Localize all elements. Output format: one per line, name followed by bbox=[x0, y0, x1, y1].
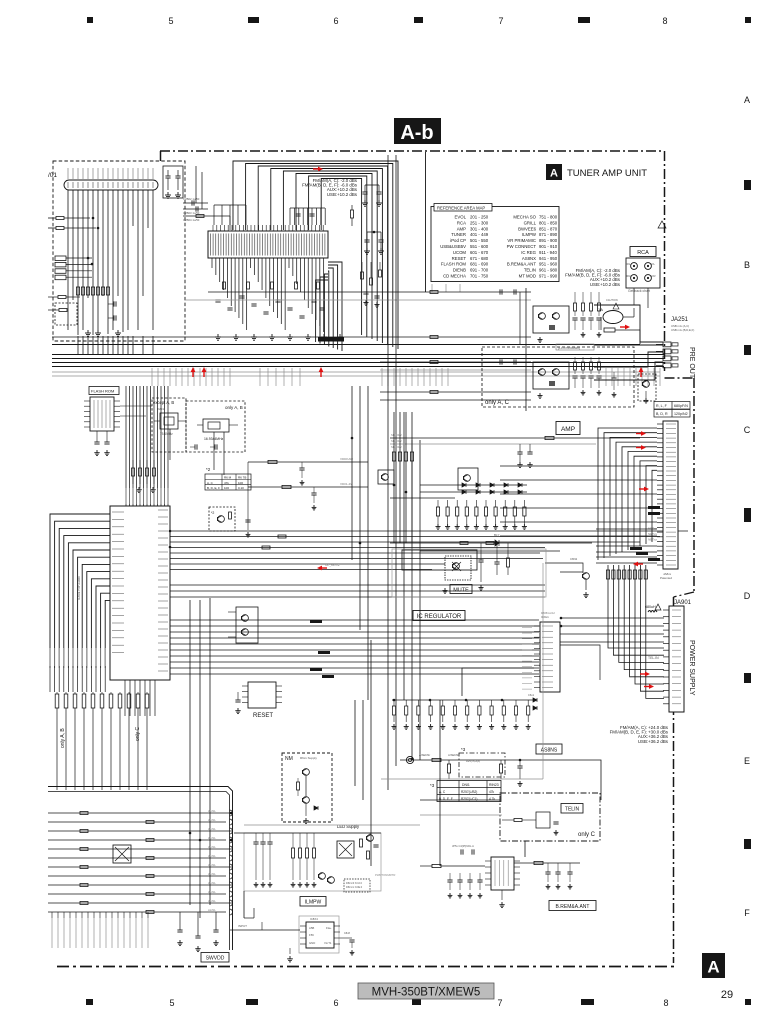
bus net labels right group bbox=[605, 368, 607, 386]
tuner amp unit border step bbox=[665, 377, 695, 379]
fuse FU251 1A bbox=[603, 311, 623, 324]
tuner IC bottom pins and wires bbox=[211, 258, 213, 268]
mute wire to transistor bbox=[545, 563, 583, 573]
ilmpw note dashed box bbox=[344, 879, 370, 892]
svg-text:*3: *3 bbox=[461, 747, 466, 752]
brem ic IC951 bbox=[491, 857, 514, 890]
ground symbols in connector box bbox=[85, 330, 91, 336]
svg-text:ILMPW: ILMPW bbox=[305, 900, 322, 906]
svg-text:680pF/N: 680pF/N bbox=[674, 404, 688, 408]
tuner amp unit border step 2 bbox=[674, 592, 695, 597]
ilmpw vertical gray feeds bbox=[243, 891, 245, 918]
as8ns wire bbox=[400, 759, 560, 761]
svg-text:R257(L/B2): R257(L/B2) bbox=[461, 790, 477, 794]
vcc caps above tuner IC area bbox=[213, 205, 215, 225]
junction dots various bbox=[351, 437, 354, 440]
ilmpw right resistors bbox=[360, 839, 363, 847]
svg-text:TUNER AMP UNIT: TUNER AMP UNIT bbox=[567, 168, 647, 179]
mute resistors on rail bbox=[460, 542, 468, 545]
amp flexible connector body bbox=[663, 421, 678, 569]
only C dash-dot box bbox=[500, 793, 600, 841]
capacitor C705 bbox=[114, 315, 116, 320]
svg-text:B, D, E, F: B, D, E, F bbox=[207, 486, 220, 490]
center vertical rails lower bbox=[354, 700, 356, 786]
sda scl wires to tuner bbox=[248, 461, 368, 463]
tuner amp unit border top bbox=[160, 150, 664, 152]
ilmpw ic bbox=[306, 922, 334, 948]
amp feed resistor bbox=[545, 436, 554, 439]
svg-text:B.REM&A.ANT: B.REM&A.ANT bbox=[507, 262, 537, 267]
svg-text:7: 7 bbox=[497, 998, 502, 1008]
svg-text:R257(L/C1): R257(L/C1) bbox=[461, 797, 477, 801]
svg-text:ILMPW: ILMPW bbox=[522, 232, 537, 237]
coupling caps C2xx to tuner bbox=[183, 202, 208, 204]
capacitor C704 bbox=[114, 301, 116, 306]
svg-text:*3: *3 bbox=[430, 783, 435, 788]
reset IC IC651 bbox=[248, 682, 276, 708]
svg-text:MT MOD: MT MOD bbox=[519, 274, 536, 279]
svg-text:100: 100 bbox=[238, 481, 243, 485]
svg-text:941 - 950: 941 - 950 bbox=[539, 256, 558, 261]
svg-text:551 - 600: 551 - 600 bbox=[470, 244, 489, 249]
tuner amp unit border bottom bbox=[57, 966, 674, 968]
page grid tick marks bottom bbox=[86, 999, 93, 1005]
svg-text:701 - 750: 701 - 750 bbox=[470, 274, 489, 279]
ILMPW label box bbox=[300, 897, 326, 907]
preout input wires bbox=[208, 291, 531, 293]
svg-text:AS8NX: AS8NX bbox=[522, 256, 536, 261]
svg-text:REFERENCE AREA MAP: REFERENCE AREA MAP bbox=[437, 206, 485, 211]
svg-text:1A: 1A bbox=[598, 307, 603, 312]
svg-text:IC REG: IC REG bbox=[521, 250, 536, 255]
ucom bottom pins bbox=[124, 680, 126, 716]
svg-text:671 - 680: 671 - 680 bbox=[470, 256, 489, 261]
cap C4xx near amp bbox=[378, 470, 394, 484]
mute transistor block bbox=[445, 556, 471, 580]
red arrow on nest top bbox=[313, 167, 323, 172]
svg-text:RIN23: RIN23 bbox=[489, 783, 499, 787]
AS8NS label box bbox=[536, 744, 562, 754]
red arrows amp connector bbox=[636, 431, 646, 436]
svg-text:JA251: JA251 bbox=[671, 317, 689, 323]
regulator to ja901 wires bbox=[560, 625, 664, 627]
svg-text:MVH-350BT/XMEW5: MVH-350BT/XMEW5 bbox=[372, 987, 481, 999]
svg-text:only C: only C bbox=[135, 726, 141, 741]
svg-text:AL/NL: AL/NL bbox=[208, 899, 216, 903]
coupling cap row 3 bbox=[183, 215, 230, 217]
NM dashed box bbox=[282, 753, 332, 822]
bottom mid caps bbox=[177, 930, 182, 932]
svg-text:75.6MHz: 75.6MHz bbox=[160, 432, 173, 436]
svg-text:961 - 980: 961 - 980 bbox=[539, 268, 558, 273]
svg-text:A: A bbox=[550, 168, 558, 180]
as8ns gray return wire bbox=[381, 778, 543, 780]
wires preout to connector JA251 bbox=[594, 305, 663, 342]
amp long feed wires bbox=[390, 437, 640, 439]
resistor on signal line bbox=[262, 546, 270, 549]
main horizontal bus wires bbox=[52, 354, 664, 356]
ucom internal pin labels right bbox=[158, 509, 168, 511]
red arrow mute line bbox=[633, 562, 643, 567]
MUTE label bbox=[450, 585, 472, 594]
svg-text:AL/NL: AL/NL bbox=[208, 863, 216, 867]
amp connector stub wires right bbox=[596, 528, 657, 530]
svg-text:OP_MUTE: OP_MUTE bbox=[325, 563, 340, 567]
svg-text:C2B04 1u/50: C2B04 1u/50 bbox=[183, 218, 200, 222]
ucom mid signal wires bbox=[170, 584, 545, 586]
svg-text:C8N2: C8N2 bbox=[570, 557, 578, 561]
svg-text:851 - 870: 851 - 870 bbox=[539, 226, 558, 231]
capacitor C251 C252 top right of box bbox=[163, 166, 183, 198]
svg-text:D: D bbox=[744, 591, 751, 601]
svg-text:29: 29 bbox=[721, 989, 733, 1001]
RCA jack block bbox=[626, 258, 660, 288]
amp connector direct feeds bbox=[500, 465, 657, 467]
amp input resistors bbox=[392, 452, 395, 461]
asterisk3 dashed box bbox=[459, 753, 505, 777]
svg-text:JP5x C4(35)VDL.A: JP5x C4(35)VDL.A bbox=[452, 844, 474, 848]
as8ns resistor bbox=[432, 758, 441, 761]
amp connector nested feed wires bbox=[598, 428, 657, 560]
svg-text:USB:+10.2 dBs: USB:+10.2 dBs bbox=[590, 282, 621, 287]
wire nest from tuner IC to right bbox=[233, 161, 398, 349]
capacitor pair C6xx with grounds bbox=[364, 185, 366, 192]
svg-text:251 - 300: 251 - 300 bbox=[470, 220, 489, 225]
component row lower left bbox=[49, 668, 51, 692]
svg-text:DIM x/0 N 10.0: DIM x/0 N 10.0 bbox=[346, 882, 363, 885]
svg-text:A/SENSr: A/SENSr bbox=[419, 753, 430, 757]
svg-text:AS8NS: AS8NS bbox=[541, 748, 558, 754]
bus net labels left group bbox=[151, 368, 153, 386]
tuner amp unit border top-left stub bbox=[160, 151, 162, 163]
svg-text:6: 6 bbox=[333, 16, 338, 26]
svg-text:CAUTION: CAUTION bbox=[606, 298, 618, 302]
regulator rc bank bbox=[393, 700, 395, 706]
svg-text:47k: 47k bbox=[489, 790, 495, 794]
svg-text:NM: NM bbox=[285, 756, 293, 762]
svg-text:E: E bbox=[744, 756, 750, 766]
telin circuit parts bbox=[536, 812, 550, 828]
mute white sub-board box bbox=[402, 550, 477, 570]
microcontroller IC601 body bbox=[110, 506, 170, 680]
tuner amp unit border right lower bbox=[673, 597, 675, 963]
only A C dashed box bbox=[482, 347, 634, 407]
triangle warning near preout bbox=[658, 221, 666, 228]
svg-text:USB&USB5V: USB&USB5V bbox=[440, 244, 466, 249]
svg-text:F: F bbox=[744, 908, 750, 918]
ilmpw input caps bbox=[255, 833, 257, 842]
antenna filter parts bbox=[351, 210, 354, 218]
resistor row on connector wires bbox=[76, 287, 79, 295]
vertical bundle amp to ja901 bbox=[608, 565, 664, 648]
bottom row resistors bbox=[80, 812, 88, 815]
warning triangle ja901 bbox=[655, 604, 661, 610]
svg-text:RESET: RESET bbox=[452, 256, 467, 261]
amp resistor bank bbox=[436, 507, 439, 516]
svg-text:FLASH ROM: FLASH ROM bbox=[441, 262, 466, 267]
svg-text:UCOM: UCOM bbox=[453, 250, 467, 255]
preout amp block lower bbox=[533, 362, 569, 389]
bottom bus rows bbox=[48, 812, 232, 814]
svg-text:PW CONNECT: PW CONNECT bbox=[507, 244, 537, 249]
svg-text:SWVDD: SWVDD bbox=[206, 956, 225, 962]
svg-text:501 - 550: 501 - 550 bbox=[470, 238, 489, 243]
ilmpw ic right cap bbox=[340, 937, 352, 939]
svg-text:8: 8 bbox=[663, 998, 668, 1008]
svg-text:IC9x1: IC9x1 bbox=[541, 615, 549, 619]
ucom left pin wires going down-left bbox=[50, 514, 110, 668]
long vertical wire at table left bbox=[425, 152, 427, 292]
svg-text:JA901: JA901 bbox=[674, 600, 692, 606]
svg-text:IC8X4: IC8X4 bbox=[310, 917, 318, 921]
ilmpw gray section outline bbox=[244, 833, 381, 891]
amp connector pin stubs bbox=[657, 423, 663, 425]
regulator output diodes bbox=[533, 698, 537, 702]
amp mid caps bbox=[517, 452, 522, 454]
svg-text:only C: only C bbox=[578, 832, 596, 838]
resistor array R3xx bbox=[132, 468, 135, 476]
components under tuner IC bbox=[215, 300, 220, 302]
preout resistors on input lines bbox=[430, 291, 438, 294]
svg-text:EVOL: EVOL bbox=[455, 215, 467, 220]
label stubs under table bbox=[431, 284, 433, 292]
svg-text:F56: F56 bbox=[309, 933, 314, 937]
svg-text:VR PRIMAMIC: VR PRIMAMIC bbox=[507, 238, 536, 243]
svg-text:891 - 900: 891 - 900 bbox=[539, 238, 558, 243]
svg-text:FL: FL bbox=[652, 262, 656, 266]
junction dots connector area bbox=[92, 217, 95, 220]
crystal X201 bbox=[160, 413, 178, 429]
svg-text:TUNER: TUNER bbox=[451, 232, 466, 237]
svg-text:only A, B: only A, B bbox=[225, 405, 243, 410]
JA901 connector body bbox=[669, 606, 684, 712]
svg-text:TEL.IN: TEL.IN bbox=[648, 656, 659, 660]
flash rom support caps bbox=[94, 442, 99, 444]
wire hop-over arcs on vertical bus bbox=[230, 810, 233, 816]
svg-text:C8x8: C8x8 bbox=[344, 932, 350, 935]
TELIN label box bbox=[561, 804, 583, 814]
discrete cluster right of tuner bbox=[361, 272, 364, 279]
ilmpw input wire bbox=[230, 929, 300, 931]
pullup resistor on scl bbox=[282, 485, 291, 488]
svg-text:Fla+: Fla+ bbox=[326, 926, 332, 930]
reset caps bbox=[235, 700, 240, 702]
model label MVH-350BT/XMEW5 bbox=[358, 983, 494, 999]
svg-text:PRE OUT: PRE OUT bbox=[688, 347, 695, 379]
SWVDD label box bbox=[201, 953, 229, 963]
ucom vdd filter parts bbox=[247, 462, 249, 530]
svg-text:TELIN: TELIN bbox=[565, 807, 580, 813]
svg-text:DIM x/c N.0E.0: DIM x/c N.0E.0 bbox=[346, 886, 363, 889]
vertical text labels bottom left bbox=[51, 918, 53, 948]
brem right parts bbox=[514, 862, 580, 864]
svg-text:871 - 890: 871 - 890 bbox=[539, 232, 558, 237]
resistor column on bundle bbox=[606, 570, 609, 579]
B.REM&A.ANT label box bbox=[549, 901, 596, 911]
resistor R704 bbox=[58, 296, 66, 299]
brem input resistor bbox=[432, 864, 441, 867]
svg-text:RL: RL bbox=[627, 262, 631, 266]
svg-text:Get back chart: Get back chart bbox=[628, 289, 650, 293]
mid vertical rails bbox=[189, 600, 191, 905]
svg-text:401 - 449: 401 - 449 bbox=[470, 232, 489, 237]
iPod connector section dashed box bbox=[53, 161, 185, 341]
as8ns cap bbox=[517, 766, 522, 768]
short stubs above tuner IC bbox=[289, 208, 291, 225]
crystal X202 16.9344MHz bbox=[203, 419, 229, 432]
main bus gray wires bbox=[52, 371, 660, 373]
svg-text:A, C: A, C bbox=[207, 481, 214, 485]
preout amp caps lower bbox=[500, 359, 502, 364]
caps on stub rail bbox=[295, 214, 300, 216]
preout connector JA251 pins bbox=[663, 342, 671, 347]
svg-text:680uH: 680uH bbox=[645, 605, 656, 609]
svg-text:A/SENSr: A/SENSr bbox=[448, 753, 459, 757]
svg-text:A5B: A5B bbox=[309, 926, 314, 930]
svg-text:USB mix (B,D,E,F): USB mix (B,D,E,F) bbox=[671, 328, 694, 332]
bypass caps cluster 1 bbox=[301, 462, 303, 468]
svg-text:*2: *2 bbox=[206, 467, 211, 472]
svg-text:BWVEE6: BWVEE6 bbox=[518, 226, 537, 231]
svg-text:5: 5 bbox=[168, 16, 173, 26]
regulator IC IC901 bbox=[540, 622, 560, 692]
regulator feedback wires bbox=[462, 668, 534, 696]
preout rc columns lower bbox=[574, 357, 576, 362]
svg-text:USB:+10.2 dBs: USB:+10.2 dBs bbox=[327, 192, 358, 197]
ground row under tuner IC bbox=[215, 334, 221, 340]
regulator rc rail bbox=[392, 699, 534, 701]
inductor L901 680uH bbox=[648, 611, 657, 613]
svg-text:4.7k: 4.7k bbox=[489, 797, 495, 801]
svg-text:A: A bbox=[707, 958, 719, 977]
page grid tick marks top bbox=[87, 17, 93, 23]
svg-text:only A, B: only A, B bbox=[60, 728, 66, 748]
svg-text:except A, B: except A, B bbox=[153, 400, 174, 405]
svg-text:AL/NL: AL/NL bbox=[208, 809, 216, 813]
svg-text:/01: /01 bbox=[48, 172, 57, 179]
svg-text:B, D, E, F: B, D, E, F bbox=[439, 797, 453, 801]
capacitor pair C6yy with grounds bbox=[366, 232, 368, 240]
red arrow bus 3 bbox=[319, 367, 324, 377]
IC REGULATOR label box bbox=[413, 611, 465, 621]
connector 701 pin labels bbox=[67, 168, 69, 179]
ilmpw feed rail bbox=[234, 832, 381, 834]
svg-text:911 - 940: 911 - 940 bbox=[539, 250, 557, 255]
amp connector pin labels bbox=[666, 423, 676, 425]
svg-text:601 - 670: 601 - 670 bbox=[470, 250, 489, 255]
svg-text:GND: GND bbox=[309, 941, 315, 945]
wires crystals to ucom bbox=[170, 429, 224, 475]
svg-text:AL/NL: AL/NL bbox=[208, 881, 216, 885]
svg-text:Patented: Patented bbox=[660, 576, 672, 580]
svg-text:INPUT: INPUT bbox=[238, 924, 247, 928]
svg-text:R, L, F: R, L, F bbox=[656, 404, 668, 408]
svg-text:RCA: RCA bbox=[637, 250, 649, 256]
svg-text:B.REM&A.ANT: B.REM&A.ANT bbox=[556, 904, 590, 910]
svg-text:CD MECHA: CD MECHA bbox=[443, 274, 466, 279]
svg-text:PWRTONMRTR: PWRTONMRTR bbox=[375, 873, 395, 877]
tuner IC IC201 body bbox=[208, 231, 328, 258]
svg-text:120p/N2: 120p/N2 bbox=[674, 412, 688, 416]
as8ns resistors bbox=[447, 764, 450, 773]
svg-text:RESET: RESET bbox=[253, 713, 273, 719]
wires flash to ucom bbox=[120, 405, 152, 407]
preout amp caps upper bbox=[500, 289, 502, 294]
svg-text:301 - 400: 301 - 400 bbox=[470, 226, 489, 231]
svg-text:0.10: 0.10 bbox=[238, 486, 244, 490]
svg-text:NETxx: NETxx bbox=[648, 532, 658, 536]
svg-text:VDDKAM: VDDKAM bbox=[340, 457, 353, 461]
antenna connector circle bbox=[406, 756, 413, 763]
preout bias transistor dashed box bbox=[638, 374, 656, 401]
svg-text:VD01-4V: VD01-4V bbox=[340, 482, 352, 486]
svg-text:AL/NL: AL/NL bbox=[208, 836, 216, 840]
except A B dashed box bbox=[152, 398, 186, 452]
svg-text:TELIN: TELIN bbox=[524, 268, 536, 273]
transistor block DTC near ucom bbox=[236, 607, 258, 643]
page grid tick marks right bbox=[744, 180, 751, 190]
wire bundle from connector 701 bbox=[67, 190, 69, 330]
svg-text:DNI1: DNI1 bbox=[462, 783, 470, 787]
svg-text:A: A bbox=[744, 95, 750, 105]
mute grounds bbox=[442, 588, 447, 593]
connector 701 body bbox=[64, 180, 158, 190]
svg-text:8: 8 bbox=[662, 16, 667, 26]
red arrow op mute center bbox=[317, 566, 327, 571]
red arrow bus 1 bbox=[191, 367, 196, 377]
svg-text:AL/NL: AL/NL bbox=[208, 827, 216, 831]
svg-text:MECHA SO: MECHA SO bbox=[513, 215, 536, 220]
svg-text:691 - 700: 691 - 700 bbox=[470, 268, 489, 273]
ilmpw driver transistor bbox=[367, 835, 374, 842]
svg-text:R25(76,2(A): R25(76,2(A) bbox=[466, 759, 480, 763]
ucom internal pin labels left bbox=[112, 511, 124, 513]
riser wires from coupling rows bbox=[195, 166, 197, 203]
tuner IC pin name hatching bbox=[210, 234, 212, 256]
bus net labels mid group bbox=[381, 368, 383, 386]
svg-text:681 - 690: 681 - 690 bbox=[470, 262, 489, 267]
svg-text:AL/NL: AL/NL bbox=[208, 818, 216, 822]
brem top caps bbox=[461, 849, 463, 854]
diode row 2 bbox=[462, 490, 466, 494]
flash ROM IC301 bbox=[90, 397, 114, 431]
net label Lch mixdown bbox=[556, 344, 594, 350]
amp out transistor bbox=[583, 573, 590, 580]
svg-text:7: 7 bbox=[498, 16, 503, 26]
svg-text:R6 M: R6 M bbox=[224, 476, 232, 480]
bypass caps cluster 2 bbox=[313, 487, 315, 493]
svg-text:901 - 910: 901 - 910 bbox=[539, 244, 558, 249]
ucom right signal wires group1 bbox=[170, 530, 688, 532]
AMP label box bbox=[556, 422, 580, 435]
reference area map table bbox=[431, 207, 559, 282]
svg-text:(Lch mixdown): (Lch mixdown) bbox=[558, 346, 580, 350]
pullup resistor on sda bbox=[268, 460, 277, 463]
section marker A bottom right bbox=[702, 953, 725, 978]
preout extra cap lower bbox=[611, 378, 616, 380]
preout value table R L F bbox=[654, 402, 690, 410]
ilmpw ic gray outline bbox=[299, 916, 339, 953]
svg-text:5: 5 bbox=[169, 998, 174, 1008]
tuner amp unit border right mid bbox=[693, 378, 695, 592]
only A B dashed box bbox=[186, 401, 245, 452]
svg-text:AL/NL: AL/NL bbox=[208, 908, 216, 912]
section header A TUNER AMP UNIT bbox=[546, 164, 562, 180]
svg-text:47k: 47k bbox=[224, 481, 229, 485]
preout value table R D R bbox=[654, 410, 690, 418]
svg-text:GRILL: GRILL bbox=[524, 220, 537, 225]
svg-text:RCA: RCA bbox=[457, 220, 466, 225]
